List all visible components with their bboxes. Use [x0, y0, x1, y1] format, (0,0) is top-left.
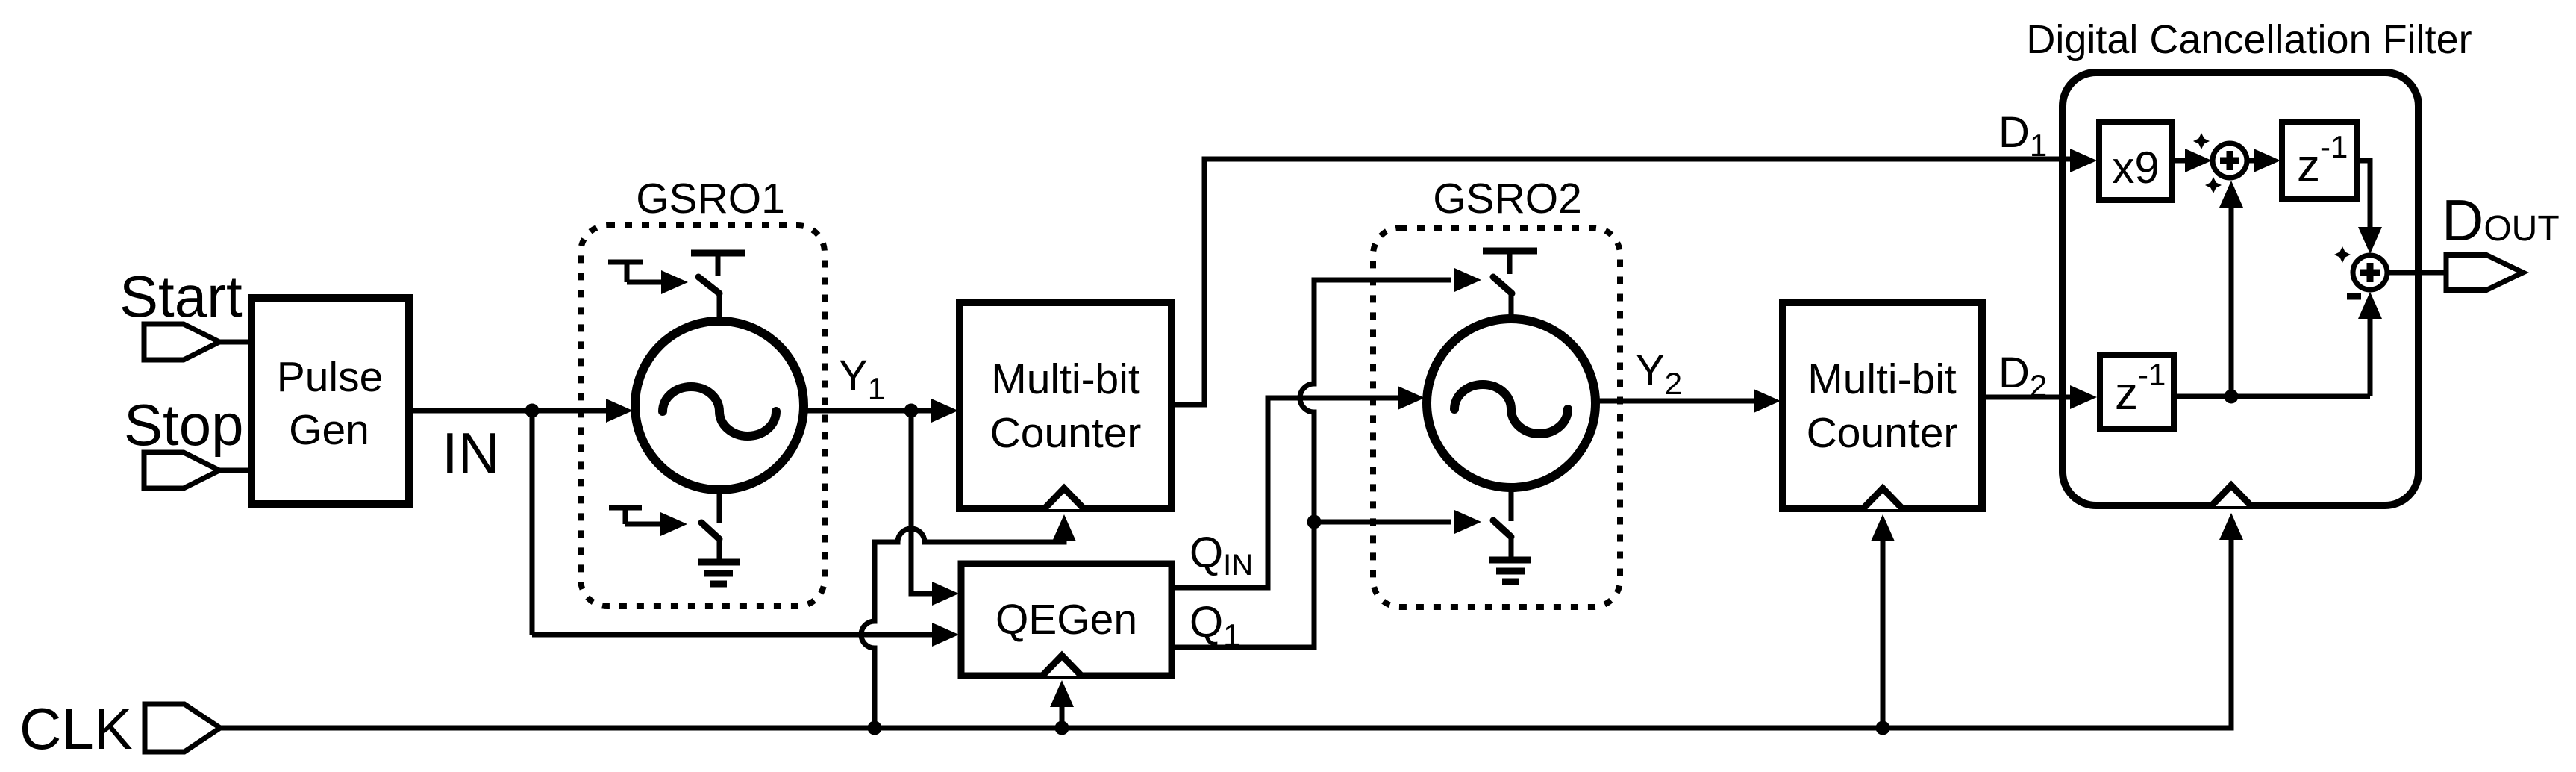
junction dot CLK to counter 2 — [1876, 721, 1890, 735]
wire D2 from counter 2 to filter — [1982, 395, 2075, 400]
svg-text:Digital Cancellation Filter: Digital Cancellation Filter — [2026, 17, 2472, 62]
gate signal symbol top of GSRO1 — [608, 262, 666, 282]
arrowhead delay 1 into adder 2 — [2358, 227, 2382, 254]
arrowhead CLK into counter 2 clock — [1871, 514, 1895, 541]
wire adder 1 to delay 1 — [2247, 158, 2258, 164]
oscillator 2 circle — [1427, 319, 1595, 488]
oscillator 1 circle — [635, 321, 804, 490]
arrowhead adder 1 into delay 1 — [2254, 149, 2280, 172]
wire feedback up to adder 1 — [2229, 203, 2234, 396]
junction dot on IN — [525, 404, 540, 418]
adder 1 plus sign upper — [2193, 133, 2210, 149]
junction dot on Y1 — [904, 404, 919, 418]
adder 2 plus sign upper — [2334, 246, 2351, 263]
wire Start pad to Pulse Gen — [219, 340, 254, 345]
wire delay 2 output — [2174, 394, 2370, 399]
svg-text:Start: Start — [119, 264, 243, 329]
svg-text:x9: x9 — [2112, 143, 2159, 193]
block Pulse Gen box — [251, 298, 409, 504]
block filter box — [2063, 72, 2419, 505]
arrowhead CLK into QEGen clock — [1050, 680, 1074, 707]
adder 1 plus sign lower — [2205, 177, 2222, 193]
wire x9 to adder 1 — [2172, 158, 2189, 164]
adder 2 plus — [2360, 263, 2380, 282]
block counter 2 box — [1783, 302, 1982, 508]
arrowhead into counter 2 — [1754, 389, 1781, 413]
clock notch QEGen — [1042, 656, 1082, 676]
ground symbol GSRO2 — [1489, 560, 1531, 582]
block delay 2 box — [2100, 355, 2174, 429]
adder 1 plus — [2220, 151, 2239, 170]
wire switch to ground GSRO1 — [717, 539, 722, 562]
switch blade top GSRO2 — [1493, 277, 1512, 293]
arrowhead into adder 1 bottom — [2219, 181, 2243, 208]
arrowhead D1 into x9 — [2070, 149, 2097, 172]
block GSRO2 dashed box — [1373, 228, 1620, 607]
wire switch to ground GSRO2 — [1509, 537, 1514, 560]
port pad CLK — [145, 704, 220, 752]
wire oscillator 1 bottom — [717, 488, 722, 523]
supply T bar GSRO1 — [691, 250, 745, 257]
junction dot delay 2 output — [2225, 390, 2239, 404]
wire Y1 branch to QEGen upper input — [911, 411, 937, 594]
switch blade top GSRO1 — [698, 277, 719, 293]
arrowhead Q1 into top switch GSRO2 — [1454, 268, 1481, 292]
wire IN branch to QEGen — [532, 632, 937, 638]
block QEGen box — [961, 564, 1172, 676]
svg-text:GSRO2: GSRO2 — [1433, 175, 1582, 222]
arrowhead D2 into delay — [2070, 385, 2097, 409]
svg-text:Counter: Counter — [990, 409, 1142, 457]
svg-text:CLK: CLK — [19, 696, 133, 762]
wire delay 1 to adder 2 — [2357, 161, 2370, 230]
arrowhead into QEGen lower input — [932, 623, 959, 647]
arrowhead into oscillator 1 — [606, 399, 633, 423]
wire D1 from counter 1 to filter — [1172, 159, 2075, 405]
wire CLK to QEGen clock — [1060, 703, 1065, 728]
switch blade bottom GSRO1 — [701, 523, 719, 539]
wire adder 2 to output pad — [2387, 270, 2448, 276]
arrowhead into counter 1 — [931, 399, 958, 423]
wire IN branch down — [530, 411, 535, 635]
svg-text:Pulse: Pulse — [277, 353, 384, 401]
svg-text:Counter: Counter — [1807, 409, 1958, 457]
clock notch counter 1 — [1044, 488, 1084, 509]
oscillator 1 sine wave — [663, 387, 776, 436]
svg-text:GSRO1: GSRO1 — [636, 175, 785, 222]
wire CLK to counter 1 clock with hops — [861, 529, 1064, 728]
svg-text:Stop: Stop — [124, 392, 243, 458]
wire Y2 — [1594, 399, 1758, 404]
adder 2 circle — [2353, 255, 2387, 290]
ground symbol GSRO1 — [698, 562, 740, 584]
wire IN from Pulse Gen to GSRO1 — [409, 408, 613, 414]
svg-text:Gen: Gen — [289, 406, 369, 454]
port pad Stop — [144, 452, 219, 488]
wire up to adder 2 — [2368, 314, 2373, 396]
arrowhead Q1 into bottom switch GSRO2 — [1454, 510, 1481, 534]
wire CLK main — [220, 539, 2231, 728]
wire switch to oscillator 2 top — [1509, 291, 1514, 322]
junction dot CLK to QEGen — [1055, 721, 1069, 735]
arrowhead gate bottom GSRO1 — [660, 512, 687, 536]
svg-text:Multi-bit: Multi-bit — [991, 355, 1140, 403]
wire Q1 branch to bottom switch GSRO2 — [1314, 520, 1451, 525]
oscillator 2 sine wave — [1454, 385, 1568, 434]
wire Q1 from QEGen with hop — [1172, 280, 1451, 647]
switch blade bottom GSRO2 — [1493, 520, 1511, 537]
supply stem GSRO2 — [1507, 251, 1513, 274]
adder 2 minus sign — [2347, 293, 2361, 300]
wire Y1 — [802, 408, 937, 414]
block x9 box — [2099, 122, 2172, 200]
arrowhead QIN into oscillator 2 — [1398, 386, 1425, 410]
clock notch filter — [2211, 485, 2251, 506]
gate signal symbol bottom of GSRO1 — [609, 508, 666, 524]
svg-text:QEGen: QEGen — [995, 596, 1137, 644]
arrowhead CLK into counter 1 clock — [1052, 514, 1076, 541]
wire switch to oscillator 1 top — [717, 293, 722, 324]
svg-text:IN: IN — [442, 420, 500, 486]
junction dot Q1 — [1307, 515, 1322, 529]
arrowhead x9 into adder 1 — [2185, 149, 2212, 172]
supply stem GSRO1 — [716, 253, 721, 276]
arrowhead gate top GSRO1 — [661, 270, 688, 294]
wire oscillator 2 bottom — [1509, 486, 1514, 521]
wire QIN from QEGen — [1172, 398, 1401, 588]
svg-text:Multi-bit: Multi-bit — [1807, 355, 1957, 403]
wire CLK to counter 2 clock — [1881, 538, 1886, 728]
block delay 1 box — [2282, 122, 2357, 199]
block counter 1 box — [960, 302, 1172, 508]
junction dot CLK to counter 1 — [868, 721, 882, 735]
supply T bar GSRO2 — [1483, 248, 1537, 255]
port pad DOUT — [2446, 255, 2523, 290]
port pad Start — [144, 324, 219, 360]
clock notch counter 2 — [1863, 488, 1903, 509]
arrowhead CLK into filter clock — [2219, 513, 2243, 540]
block GSRO1 dashed box — [581, 225, 825, 606]
adder 1 circle — [2213, 143, 2247, 178]
arrowhead into adder 2 bottom — [2358, 292, 2382, 319]
arrowhead into QEGen upper input — [932, 582, 959, 606]
wire Stop pad to Pulse Gen — [219, 468, 254, 473]
